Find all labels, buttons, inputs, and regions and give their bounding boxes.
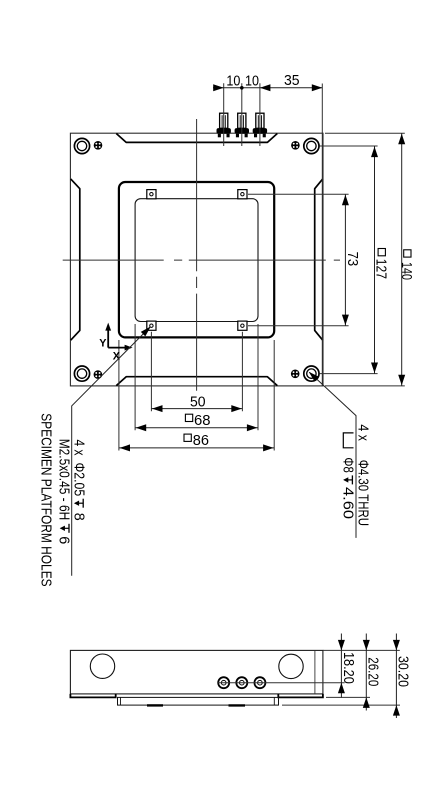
svg-text:50: 50 bbox=[190, 394, 206, 410]
horizontal centerline of plan view bbox=[63, 259, 340, 261]
electrical connector 1 on top edge (plan view) bbox=[220, 113, 228, 128]
square symbol for 140 dim bbox=[404, 250, 411, 257]
svg-text:10: 10 bbox=[245, 73, 259, 89]
svg-text:SPECIMEN PLATFORM HOLES: SPECIMEN PLATFORM HOLES bbox=[38, 413, 55, 586]
side view base plate bbox=[118, 697, 279, 705]
M2.5 tapped hole top-left (square marker with circle) bbox=[147, 190, 156, 199]
small pin hole top-left (filled circle with cross windows) bbox=[94, 141, 103, 150]
vertical centerline of plan view bbox=[196, 119, 198, 391]
svg-text:30.20: 30.20 bbox=[395, 656, 411, 687]
arrow left outside pointing right at first connector bbox=[213, 84, 224, 91]
arrow pointing right at plate right edge extension bbox=[312, 84, 323, 91]
coordinate system symbol (X Y axes) bbox=[108, 327, 128, 348]
note text line2: M2.5x0.45 - 6H depth 6 (rotated) bbox=[56, 439, 73, 545]
extension line foot bottom (26.20) bbox=[326, 696, 370, 698]
extension lines right side for 73 dim bbox=[248, 194, 349, 326]
side view main body outline bbox=[70, 650, 323, 694]
depth symbol for line2 bbox=[60, 524, 69, 533]
counterbore hole bottom-right (dbl circle) bbox=[304, 366, 319, 381]
svg-text:18.20: 18.20 bbox=[340, 652, 356, 684]
counterbore symbol (open square bracket) bbox=[343, 433, 353, 448]
svg-text:4 x: 4 x bbox=[355, 424, 372, 441]
dimension line top (10,10,35) bbox=[213, 87, 322, 89]
svg-text:140: 140 bbox=[398, 262, 414, 280]
counterbore hole top-left (dbl circle) bbox=[74, 138, 89, 153]
recessed bottom edge with chamfer transitions bbox=[116, 377, 277, 386]
plate outline (140mm square) plan view bbox=[70, 133, 323, 386]
small pin hole bottom-left (filled circle with cross windows) bbox=[94, 370, 103, 379]
note text line1: 4 x PHI2.05 depth 8 (rotated) bbox=[70, 440, 87, 521]
dimension line 50 bbox=[151, 408, 242, 410]
side view right hole circle bbox=[279, 654, 303, 678]
side view connector 1 (concentric circles) bbox=[218, 677, 229, 688]
side view inner edge line right bbox=[314, 650, 316, 694]
svg-text:86: 86 bbox=[193, 433, 209, 449]
electrical connector 3 on top edge (plan view) bbox=[256, 113, 264, 128]
side view left hole circle bbox=[90, 654, 114, 678]
svg-text:M2.5x0.45 - 6H: M2.5x0.45 - 6H bbox=[56, 439, 73, 521]
dimension 18.20 line and arrows bbox=[340, 634, 342, 698]
note text line1: 4 x PHI4.30 THRU (rotated) bbox=[355, 424, 372, 526]
raised platform square 86mm (thick rounded square) bbox=[119, 182, 274, 337]
square symbol for 68 dim bbox=[185, 414, 192, 421]
dot at middle connector extension bbox=[240, 86, 244, 90]
svg-text:35: 35 bbox=[284, 73, 300, 89]
svg-text:6: 6 bbox=[56, 536, 73, 544]
svg-text:10: 10 bbox=[226, 73, 240, 89]
dimension line 140 bbox=[401, 133, 403, 386]
depth symbol for line1 (bar + left arrow) bbox=[74, 499, 83, 508]
counterbore hole bottom-left (dbl circle) bbox=[74, 366, 89, 381]
leader line to counterbore hole (bottom-right) bbox=[310, 372, 357, 538]
extension lines below plan view for 50,68,86 dims bbox=[119, 324, 274, 451]
svg-text:68: 68 bbox=[194, 413, 211, 429]
specimen platform top surface square 68mm (thin rounded square) bbox=[135, 199, 258, 322]
extension lines for 127 dim from counterbores bbox=[320, 146, 378, 374]
svg-text:Y: Y bbox=[99, 337, 107, 349]
side view connector 3 (concentric circles) bbox=[254, 677, 265, 688]
connector centerlines (extension lines for 10,10 dims) bbox=[224, 83, 260, 146]
extension line top face of side view bbox=[323, 649, 400, 651]
svg-text:127: 127 bbox=[372, 259, 388, 279]
note text line2: PHI8 depth 4.60 (rotated) bbox=[339, 457, 356, 519]
side view left foot bbox=[70, 694, 115, 698]
dimension line 68 bbox=[135, 427, 258, 429]
svg-text:4.60: 4.60 bbox=[339, 487, 356, 519]
square symbol for 127 dim bbox=[378, 249, 385, 256]
recessed left edge with chamfer transitions bbox=[71, 179, 80, 340]
leader line to specimen platform hole (bottom-left M2.5 hole) bbox=[72, 327, 150, 575]
recessed right edge with chamfer transitions bbox=[315, 179, 323, 340]
svg-text:26.20: 26.20 bbox=[365, 657, 381, 686]
side view right foot bbox=[278, 694, 323, 698]
depth symbol for right note line2 bbox=[343, 475, 352, 484]
dimension line 73 bbox=[344, 194, 346, 326]
electrical connector 2 on top edge (plan view) bbox=[238, 113, 246, 128]
counterbore hole top-right (dbl circle) bbox=[304, 138, 319, 153]
recessed top edge with chamfer transitions bbox=[116, 134, 277, 143]
svg-text:Φ8: Φ8 bbox=[339, 457, 356, 472]
M2.5 tapped hole top-right (square marker with circle) bbox=[238, 190, 247, 199]
extension line from connector centerline (18.20) bbox=[218, 682, 345, 684]
side view connector 2 (concentric circles) bbox=[236, 677, 247, 688]
M2.5 tapped hole bottom-right (square marker with circle) bbox=[238, 321, 247, 330]
dimension 26.20 line and arrows bbox=[365, 634, 367, 711]
dimension line 86 bbox=[119, 447, 274, 449]
extension line from plate right edge down (35 dim) bbox=[321, 84, 323, 386]
small pin hole bottom-right (filled circle with cross windows) bbox=[291, 370, 300, 379]
svg-text:73: 73 bbox=[344, 252, 360, 267]
arrow outside pointing left at third connector bbox=[260, 84, 271, 91]
dimension 30.20 line and arrows bbox=[395, 634, 397, 719]
extension lines for 140 dim from plate edges bbox=[325, 133, 405, 386]
base plate bottom pads (thick marks) bbox=[147, 704, 163, 706]
M2.5 tapped hole bottom-left (square marker with circle) bbox=[147, 321, 156, 330]
square symbol for 86 dim bbox=[184, 434, 191, 441]
extension line base bottom (30.20) bbox=[282, 704, 400, 706]
dimension line 127 bbox=[374, 146, 376, 374]
small pin hole top-right (filled circle with cross windows) bbox=[291, 141, 300, 150]
